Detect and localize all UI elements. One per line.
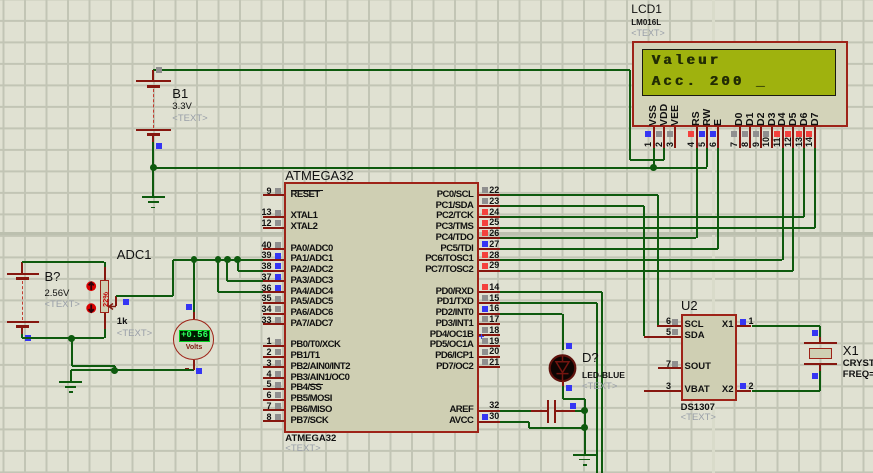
wire AVCC to LED junction [500,421,530,423]
major grid band vertical [712,0,715,473]
ATMEGA32 pin 16 PD2/INT0 [479,313,500,315]
U2 pin 6 SCL [657,325,680,327]
ATMEGA32 pin 27 PC5/TDI [479,248,500,250]
LCD pin 10 D3 [767,112,778,125]
battery B1 [152,70,154,80]
ATMEGA32 pin 3 PB2/AIN0/INT2 [263,366,285,368]
ATMEGA32 pin 21 PD7/OC2 [479,366,500,368]
wire PC2 to LCD D6 [500,216,804,218]
ATMEGA32 pin 37 PA3/ADC3 [263,280,285,282]
label LED-BLUE [582,371,625,381]
label B? TEXT placeholder [45,300,80,311]
U2 pin 3 VBAT [644,390,681,392]
U2 pin 7 SOUT [658,367,681,369]
LCD pin 14 D7 [810,112,821,125]
LCD text line 2 Acc. 200 with cursor [652,75,768,90]
capacitor on AREF line [531,410,548,412]
wire B? positive to potentiometer top [22,261,104,263]
wire analog ground rail [71,369,194,371]
node marker blue wiper [123,299,129,305]
ATMEGA32 pin 39 PA1/ADC1 [263,259,285,261]
wire LCD D6 to PC2 [803,148,805,217]
wire LED cathode down [562,381,564,399]
wire LCD D7 to PC3 [814,148,816,227]
wire LCD RS to PC4 [696,148,698,238]
label CRYSTAL [843,359,873,370]
LCD pin 12 D5 [788,112,799,125]
ATMEGA32 pin 25 PC3/TMS [479,227,500,229]
node marker blue B1 negative [156,143,162,149]
ATMEGA32 pin 30 AVCC [479,421,500,423]
wire PD2 to LED anode [500,313,563,315]
label B1 TEXT placeholder [172,114,207,125]
LED D? blue [546,351,580,385]
node marker blue voltmeter minus [196,368,202,374]
label ADC1 [117,248,152,262]
potentiometer rotated value 22% [102,291,110,306]
LCD pin 2 VDD [659,104,670,126]
potentiometer wiper arrow [115,296,117,306]
voltmeter display +0.56 [179,330,210,342]
LCD screen [642,49,837,96]
voltmeter body [193,312,195,319]
ATMEGA32 pin 23 PC1/SDA [479,205,500,207]
wire PC5 to LCD E [500,248,718,250]
wire PD0 RXD off-sheet [500,291,602,293]
wire PD1 TXD off-sheet [500,302,598,304]
voltmeter minus sign [185,368,190,370]
LCD text line 1 Valeur [652,54,722,69]
ATMEGA32 pin 8 PB7/SCK [263,420,285,422]
battery B? 2.56V [21,262,23,273]
wire ground rail B1 to LCD VSS and RW [153,167,707,169]
junction PA3 tap [224,256,231,263]
ATMEGA32 pin 34 PA6/ADC6 [263,313,285,315]
junction LCD VSS [650,164,657,171]
ATMEGA32 pin 40 PA0/ADC0 [263,248,285,250]
ATMEGA32 pin 26 PC4/TDO [479,237,500,239]
LCD pin 3 VEE [670,105,681,126]
wire to PA2 [237,260,239,271]
wire LCD E to PC5 [717,148,719,249]
ATMEGA32 pin 9 RESET [263,194,285,196]
ATMEGA32 pin 14 PD0/RXD [479,291,500,293]
wire PC3 to LCD D7 [500,227,815,229]
wire LCD VSS to ground rail [653,148,655,167]
wire LCD RW to ground rail [706,148,708,167]
label Volts [182,344,206,351]
voltmeter minus lead [193,360,195,371]
LCD pin 7 D0 [734,112,745,125]
label D? [582,351,599,365]
wire PC7 to LCD D5 [500,270,794,272]
ATMEGA32 pin 36 PA4/ADC4 [263,291,285,293]
wire AREF to capacitor [500,410,531,412]
ATMEGA32 pin 29 PC7/TOSC2 [479,270,500,272]
wire capacitor to LED junction [575,410,585,412]
potentiometer 1k body [104,262,106,267]
microcontroller U? ATMEGA32 body [284,182,479,433]
node marker blue crystal bottom [812,373,818,379]
node marker blue crystal top [812,330,818,336]
label B? [45,270,61,284]
ATMEGA32 pin 35 PA5/ADC5 [263,302,285,304]
wire B? negative to rail [21,334,23,338]
label pot TEXT placeholder [117,329,152,340]
node marker blue LED anode [566,343,572,349]
label FREQ [843,370,873,381]
node marker gray B1 top [156,67,162,73]
label LED TEXT placeholder [582,382,617,393]
ATMEGA32 pin 22 PC0/SCL [479,194,500,196]
ground symbol ADC area [59,381,82,383]
ground symbol below LED [573,454,596,456]
label LCD1 [631,3,662,16]
ground symbol below B1 [142,196,165,198]
ATMEGA32 pin 19 PD5/OC1A [479,345,500,347]
wire B1 positive rail to LCD VDD riser [153,69,629,71]
label LCD1 TEXT placeholder [631,28,665,38]
ATMEGA32 pin 32 AREF [479,410,500,412]
label U2 [681,299,698,313]
label LM016L [631,18,661,27]
label DS1307 [681,403,715,414]
ATMEGA32 pin 18 PD4/OC1B [479,334,500,336]
U2 pin 1 X1 [737,325,751,327]
wire LCD D5 to PC7 [792,148,794,270]
LCD pin 9 D2 [756,112,767,125]
LCD pin 6 E [713,119,724,126]
wire PC6 to LCD D4 [500,259,783,261]
LCD pin 11 D4 [777,112,788,125]
U2 pin 5 SDA [644,336,681,338]
node marker blue capacitor right [570,403,576,409]
wire to PA3 [226,260,228,282]
label ATMEGA32 TEXT placeholder [285,444,320,455]
U2 pin 2 X2 [737,390,751,392]
wire LCD VDD riser from B1 rail [629,70,631,160]
RTC U2 DS1307 body [681,314,738,401]
wire LCD D4 to PC6 [782,148,784,260]
ATMEGA32 pin 5 PB4/SS [263,388,285,390]
ATMEGA32 pin 33 PA7/ADC7 [263,323,285,325]
ATMEGA32 pin 17 PD3/INT1 [479,323,500,325]
wire rail to ground [71,338,73,366]
wire U2 X1 to crystal top [752,325,821,327]
wire PC4 to LCD RS [500,237,697,239]
LCD pin 8 D1 [745,112,756,125]
ATMEGA32 pin 24 PC2/TCK [479,216,500,218]
junction LED-AVCC [581,424,588,431]
ATMEGA32 pin 20 PD6/ICP1 [479,356,500,358]
wire PA1 bus [173,259,263,261]
junction LED-AREF cap [581,407,588,414]
junction analog ground [111,367,118,374]
label 1k [117,317,128,328]
node marker blue LED cathode [566,385,572,391]
label 3.3V [172,102,192,113]
label B1 [172,87,188,101]
wire B1 negative to ground rail [152,142,154,196]
wire to PA4 [217,260,219,292]
label ATMEGA32 title [285,169,353,183]
potentiometer decrease button [85,302,98,315]
major grid band horizontal [0,232,873,235]
label ATMEGA32 below body [285,434,336,445]
LCD pin 4 RS [691,111,702,126]
cursor cross marker [479,336,484,337]
ATMEGA32 pin 6 PB5/MOSI [263,399,285,401]
junction B? rail ground drop [68,335,75,342]
ATMEGA32 pin 2 PB1/T1 [263,356,285,358]
wire PC0 to U2 SCL [500,194,658,196]
junction PA2 tap [234,256,241,263]
potentiometer increase button [85,280,98,293]
ATMEGA32 pin 4 PB3/AIN1/OC0 [263,377,285,379]
LCD LM016L body [632,41,849,127]
wire PA riser [172,260,174,297]
crystal X1 [819,337,821,343]
ATMEGA32 pin 1 PB0/T0/XCK [263,345,285,347]
wire to voltmeter plus [193,260,195,312]
node marker blue B? negative [25,335,31,341]
ATMEGA32 pin 7 PB6/MISO [263,409,285,411]
junction B1 ground rail [150,164,157,171]
ATMEGA32 pin 15 PD1/TXD [479,302,500,304]
wire PC1 to U2 SDA [500,205,644,207]
LCD pin 13 D6 [799,112,810,125]
wire down to ground symbol [70,370,72,381]
wire wiper to PA riser [116,295,173,297]
wire B? ground rail [22,337,104,339]
wire crystal bottom to U2 X2 [819,371,821,391]
ATMEGA32 pin 38 PA2/ADC2 [263,270,285,272]
junction voltmeter tap [191,256,198,263]
junction PA4 tap [215,256,222,263]
label 2.56V [45,289,70,300]
ATMEGA32 pin 13 XTAL1 [263,216,285,218]
LCD pin 1 VSS [648,105,659,126]
label U2 TEXT placeholder [681,413,716,424]
LCD pin 5 RW [702,108,713,125]
node marker blue voltmeter plus [186,304,192,310]
ATMEGA32 pin 12 XTAL2 [263,227,285,229]
label X1 [843,344,859,358]
ATMEGA32 pin 28 PC6/TOSC1 [479,259,500,261]
